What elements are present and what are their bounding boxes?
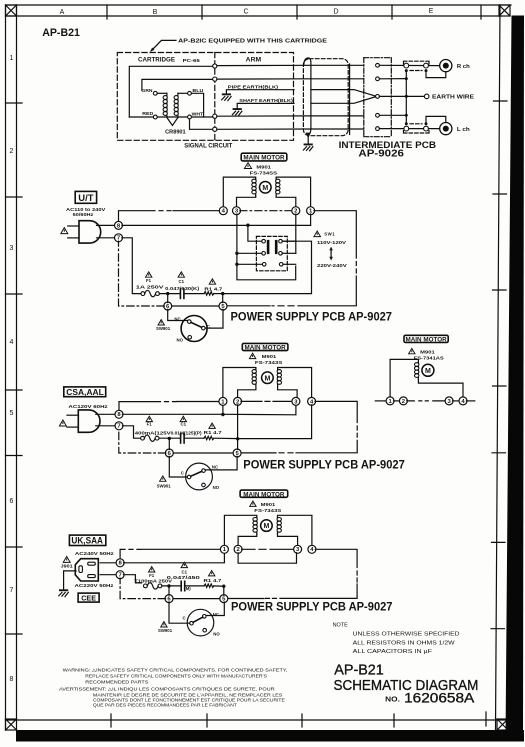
wire right winding bottom to terminal 3	[278, 534, 298, 546]
wire terminal 2 down to SW1 right pins	[295, 214, 297, 253]
wire terminal 5 to 6	[172, 598, 220, 600]
SW901 contact NO	[203, 628, 207, 632]
svg-text:C1: C1	[182, 569, 188, 574]
switch SW901 body	[181, 316, 207, 342]
label box U/T	[75, 191, 96, 203]
SW1 spare pin left	[262, 263, 266, 267]
L connector inline pins	[404, 122, 430, 133]
terminal 2	[292, 207, 300, 215]
wire winding bottom to terminal 4	[418, 379, 463, 398]
wire terminal 1 to left winding top	[223, 368, 256, 399]
descender dash break	[355, 262, 357, 274]
cartridge outer dashed box	[117, 53, 293, 141]
wire SW1 right top pin to snubber line	[225, 241, 312, 293]
wire R channel inside cable	[311, 64, 364, 66]
svg-text:NO.: NO.	[385, 694, 400, 703]
svg-text:AP-9026: AP-9026	[358, 149, 404, 160]
wire terminal 3 to 4	[453, 400, 460, 402]
bottom rail dash break	[266, 597, 277, 599]
motor left winding	[252, 179, 256, 196]
wire winding top to terminal 1	[390, 359, 418, 397]
safety triangle R1	[209, 571, 215, 576]
SW901 contact C	[187, 475, 191, 479]
svg-text:SHAFT EARTH(BLK): SHAFT EARTH(BLK)	[239, 98, 293, 103]
terminal 1	[219, 397, 227, 405]
svg-text:SW901: SW901	[158, 628, 173, 633]
svg-text:R1 4.7: R1 4.7	[204, 430, 223, 435]
corner X box top-left	[6, 5, 17, 16]
SW901 contact C	[202, 326, 206, 330]
svg-text:MAIN MOTOR: MAIN MOTOR	[245, 345, 287, 352]
safety triangle C1	[178, 272, 184, 277]
wire right bottom pin link	[282, 252, 296, 254]
terminal 1	[220, 545, 228, 553]
terminal 8	[115, 410, 123, 418]
wire terminal 2 to left winding bottom	[238, 386, 256, 398]
wire terminal 3 bus down SW1	[237, 214, 296, 280]
svg-text:0.01M(125)(P): 0.01M(125)(P)	[171, 430, 203, 435]
R plug shell return wire	[426, 71, 446, 78]
junction dot snubber node	[236, 437, 239, 440]
motor left winding	[252, 369, 256, 386]
svg-text:NOTE: NOTE	[333, 622, 349, 628]
svg-text:POWER SUPPLY PCB AP-9027: POWER SUPPLY PCB AP-9027	[243, 458, 404, 471]
right frame row ticks	[491, 101, 507, 629]
dash-dot rail terminal 6 to J901 neutral riser	[120, 578, 166, 599]
wire right winding top to terminal 1	[276, 177, 311, 207]
fuse F1	[144, 583, 162, 589]
svg-text:AC240V 50Hz: AC240V 50Hz	[75, 551, 115, 556]
wire terminal 1 to left winding top	[224, 515, 256, 546]
terminal 5	[219, 302, 227, 310]
wire plug to terminal 8	[96, 413, 116, 415]
SW901 blade C-NC	[193, 617, 203, 622]
svg-text:NC: NC	[212, 464, 218, 469]
wire rail stub left	[375, 400, 386, 402]
svg-text:MAIN MOTOR: MAIN MOTOR	[243, 491, 285, 498]
wire L channel inside cable	[311, 115, 364, 117]
wire pipe earth	[226, 90, 294, 94]
bottom rail to terminal 5	[226, 305, 270, 307]
earth lug circle	[424, 94, 429, 99]
wire terminal 8 riser to motor rail with break	[120, 549, 221, 559]
label box CSA,AAL	[64, 387, 106, 397]
svg-text:1620658A: 1620658A	[404, 691, 475, 706]
svg-text:7: 7	[10, 587, 14, 594]
terminal 8	[115, 221, 123, 229]
wire shaft earth converging	[311, 97, 375, 104]
cable right rim	[349, 64, 351, 135]
svg-text:R1 4.7: R1 4.7	[204, 578, 223, 583]
safety triangle SW1	[314, 231, 321, 237]
SW901 contact NC	[202, 469, 206, 473]
connector pin 2	[376, 77, 380, 81]
wire J901 to terminal 7	[100, 574, 117, 576]
callout leader arrow	[152, 40, 177, 50]
svg-text:M901: M901	[420, 349, 435, 354]
wire plug to terminal 7	[96, 425, 116, 427]
safety triangle SW901	[158, 320, 164, 325]
bottom frame line	[6, 719, 510, 721]
connector dash-dot box bottom edge	[364, 136, 392, 138]
terminal 7	[115, 422, 123, 430]
wire plug to terminal 8	[97, 224, 116, 226]
junction dot SW1 feed on 8-1 rail	[246, 224, 249, 227]
coil CR8901 right winding	[174, 93, 178, 117]
wire terminal 1 to 2	[394, 400, 401, 402]
switch SW901 body	[186, 463, 213, 490]
svg-text:RECOMMENDED PARTS: RECOMMENDED PARTS	[85, 679, 148, 684]
black scan bar bottom edge	[16, 730, 524, 742]
J901 slot lower	[88, 575, 96, 578]
wire fuse to C1	[159, 437, 180, 439]
fuse F1	[141, 290, 159, 296]
svg-text:C1: C1	[181, 422, 187, 427]
descender dash break	[356, 426, 358, 437]
wire shaft earth	[237, 103, 294, 108]
arm terminal 1	[213, 64, 217, 68]
connector pin 3	[376, 95, 380, 99]
terminal 6	[165, 595, 173, 603]
label box UK,SAA	[69, 535, 105, 545]
SW1 pin left top	[262, 239, 266, 243]
svg-text:PIPE EARTH(BLK): PIPE EARTH(BLK)	[228, 84, 279, 89]
safety triangle SW901	[160, 476, 166, 481]
label MAIN MOTOR boxed	[242, 343, 288, 351]
wire R1 to snubber node	[214, 293, 225, 295]
svg-text:CARTRIDGE: CARTRIDGE	[138, 57, 175, 64]
svg-text:B: B	[153, 9, 158, 16]
SW901 contact NC	[188, 320, 192, 324]
plug prong upper	[68, 225, 79, 227]
plug prong upper	[67, 414, 78, 416]
ground J901	[59, 589, 69, 596]
svg-text:MAIN MOTOR: MAIN MOTOR	[243, 155, 285, 162]
wire bus to spare left pin	[237, 263, 263, 265]
svg-text:ALL RESISTORS IN OHMS 1/2W: ALL RESISTORS IN OHMS 1/2W	[353, 640, 456, 646]
corner X box bottom-left	[6, 719, 17, 730]
svg-text:AP-B21: AP-B21	[42, 27, 80, 39]
wire junction down to terminal 6	[167, 294, 169, 303]
terminal 3	[292, 397, 300, 405]
terminal 2	[234, 397, 242, 405]
svg-text:U/T: U/T	[78, 193, 94, 203]
svg-text:AP-B2IC EQUIPPED WITH THIS CAR: AP-B2IC EQUIPPED WITH THIS CARTRIDGE	[178, 39, 328, 45]
wire terminal 5 to 6	[171, 305, 220, 307]
wire pin3 to earth lug	[379, 95, 424, 97]
wire terminal 1 to right descender	[314, 211, 356, 258]
wire junction down to terminal 5	[222, 294, 224, 303]
AC plug P901	[79, 221, 101, 243]
SW901 blade C-NC	[191, 471, 202, 476]
junction dot bus-L	[405, 122, 408, 125]
wire right top pin link	[282, 240, 296, 242]
terminal 1	[307, 207, 315, 215]
ground shaft earth	[232, 108, 242, 115]
svg-text:R1 4.7: R1 4.7	[204, 286, 223, 291]
svg-text:D: D	[333, 9, 338, 16]
svg-text:CR8901: CR8901	[165, 129, 186, 135]
wire NC to terminal 5	[206, 602, 224, 616]
svg-text:NO: NO	[177, 337, 184, 342]
wire BLU drop	[191, 93, 203, 117]
svg-text:M: M	[263, 523, 269, 530]
resistor R1	[204, 292, 214, 295]
wire junction down to terminal 5	[223, 586, 225, 595]
SW1 dashed box	[256, 236, 287, 270]
svg-text:1A 250V: 1A 250V	[136, 284, 164, 289]
bottom rail dash break	[272, 305, 294, 307]
SW1 pin left bottom	[262, 252, 266, 256]
terminal 4	[308, 545, 316, 553]
svg-text:REPLACE SAFETY CRITICAL COMPON: REPLACE SAFETY CRITICAL COMPONENTS ONLY …	[85, 674, 267, 679]
terminal RED	[153, 115, 157, 119]
svg-text:3: 3	[10, 245, 14, 252]
wire terminal 6 to NC	[168, 309, 188, 320]
junction dot bus earth	[405, 95, 408, 98]
label MAIN MOTOR boxed	[404, 335, 448, 343]
chevron pole piece of CR8901	[167, 118, 178, 126]
ground pipe earth	[222, 93, 232, 100]
capacitor C1	[181, 581, 185, 590]
wire cable drain to ground	[307, 136, 309, 144]
arm terminal 4	[213, 127, 217, 131]
wire bus to left bottom pin	[237, 252, 262, 254]
wire J901 to terminal 8	[100, 562, 117, 564]
safety triangle F1	[146, 272, 152, 277]
wire terminal 6 to C	[169, 456, 187, 477]
svg-text:L ch: L ch	[457, 127, 470, 133]
J901 slot upper	[88, 562, 96, 565]
svg-text:UNLESS OTHERWISE SPECIFIED: UNLESS OTHERWISE SPECIFIED	[353, 632, 460, 638]
resistor R1	[204, 436, 214, 439]
inner ruler line left	[16, 5, 18, 720]
wire terminal 8 live to terminal 1 drop	[124, 553, 225, 563]
descender lower part to bottom rail	[298, 276, 356, 306]
svg-text:AC120V 60Hz: AC120V 60Hz	[68, 404, 108, 409]
safety triangle at plug	[63, 556, 70, 562]
svg-text:M901: M901	[256, 165, 271, 170]
terminal 6	[164, 302, 172, 310]
J901 earth slot	[79, 566, 83, 573]
wire L return inside cable	[311, 128, 364, 130]
svg-text:C1: C1	[179, 279, 185, 284]
wire C1 to R1	[184, 437, 204, 439]
motor winding	[415, 362, 419, 379]
descender lower part to bottom rail	[280, 584, 357, 598]
terminal GRN	[153, 91, 157, 95]
safety triangle at plug	[61, 228, 68, 234]
corner X box bottom-right	[497, 719, 508, 730]
junction dot below terminal 1	[221, 413, 224, 416]
wire terminal 3 to left winding bottom	[237, 196, 256, 208]
svg-text:220V-240V: 220V-240V	[317, 263, 348, 268]
label MAIN MOTOR boxed	[240, 490, 288, 498]
corner X box top-right	[499, 5, 510, 16]
black scan bar right edge	[506, 16, 525, 742]
safety triangle R1	[209, 423, 215, 428]
cartridge/arm dashed divider	[214, 53, 216, 141]
svg-text:400mA(125V: 400mA(125V	[135, 430, 171, 435]
wire dash break terminals 2-3	[242, 548, 295, 550]
wire C to terminal 5	[205, 309, 223, 328]
terminal 4	[219, 207, 227, 215]
capacitor C1	[180, 289, 184, 298]
wire pipe earth converging	[311, 90, 375, 96]
outer border top line	[6, 4, 512, 6]
wire bottom rail RED to WHT to terminal 3	[129, 116, 212, 118]
svg-text:0.047/630(K): 0.047/630(K)	[165, 286, 200, 291]
AC plug P901	[78, 410, 100, 432]
terminal WHT	[188, 115, 192, 119]
dash-dot rail terminal 6 to plug neutral riser	[119, 429, 166, 453]
svg-text:POWER SUPPLY PCB AP-9027: POWER SUPPLY PCB AP-9027	[231, 311, 393, 324]
SW1 right jumper blade	[275, 240, 278, 254]
terminal 5	[233, 449, 241, 457]
terminal 4	[308, 397, 316, 405]
wire dash-dot between terminals 3 and 2	[240, 210, 293, 212]
wire R return inside cable	[311, 78, 364, 80]
motor M901 circle	[422, 364, 434, 376]
wire rail stub right	[466, 400, 474, 402]
motor M901 circle	[260, 182, 272, 194]
junction dot to terminal 6	[166, 292, 169, 295]
terminal 3	[445, 397, 453, 405]
junction dot to terminal 6	[167, 584, 170, 587]
bottom rail to terminal 5	[241, 452, 277, 454]
junction dot bus pin4	[405, 114, 408, 117]
svg-text:E: E	[429, 8, 434, 15]
safety triangle M901	[244, 163, 251, 169]
safety triangle SW901	[161, 622, 167, 627]
wire pin2 to bus	[379, 78, 406, 80]
svg-text:1: 1	[10, 55, 14, 62]
svg-text:110V-120V: 110V-120V	[317, 240, 347, 245]
terminal 3	[233, 207, 241, 215]
wire terminal 4 to right descender	[315, 549, 357, 567]
svg-text:EARTH WIRE: EARTH WIRE	[432, 95, 475, 101]
wire terminal 2 down through to snubber junction and terminal 5	[237, 405, 239, 450]
wire GRN to coil	[157, 92, 167, 94]
terminal 5	[220, 595, 228, 603]
label box CEE	[78, 593, 99, 602]
capacitor C1	[181, 434, 185, 443]
wire WHT to terminal 4	[190, 119, 213, 129]
arm terminal 2	[213, 77, 217, 81]
svg-text:CSA,AAL: CSA,AAL	[66, 388, 104, 397]
junction dot bus pin2	[405, 77, 408, 80]
safety triangle R1	[209, 279, 215, 284]
motor right winding	[276, 179, 280, 196]
svg-text:SIGNAL CIRCUIT: SIGNAL CIRCUIT	[184, 142, 232, 149]
wire right winding top to terminal 4	[278, 515, 312, 546]
svg-text:FS-7343S: FS-7343S	[254, 508, 281, 513]
cable left rim	[304, 58, 311, 136]
motor M901 circle	[261, 520, 273, 532]
wire right winding bottom to terminal 3	[278, 386, 298, 398]
svg-text:BLU: BLU	[192, 88, 203, 93]
descender dash break	[356, 571, 358, 582]
wire BLU to coil	[178, 92, 188, 94]
SW1 spare pin right	[279, 263, 283, 267]
cable drain arrowhead	[306, 133, 311, 138]
wire terminal 4 to right descender	[315, 401, 357, 422]
svg-text:C: C	[243, 9, 248, 16]
svg-text:NO: NO	[213, 485, 220, 490]
svg-text:ALL CAPACITORS IN µF: ALL CAPACITORS IN µF	[353, 649, 433, 655]
wire J901 earth to ground	[64, 571, 76, 589]
SW901 blade NC-C	[191, 322, 202, 327]
junction dot above terminal 5	[221, 292, 224, 295]
svg-text:UK,SAA: UK,SAA	[71, 536, 103, 546]
wire terminal 8 live rail to terminal 3 riser	[122, 405, 296, 415]
svg-text:M: M	[425, 368, 431, 375]
svg-text:RED: RED	[142, 111, 153, 116]
bottom frame column ticks	[111, 712, 486, 727]
motor M901 circle	[262, 372, 274, 384]
svg-text:NO: NO	[213, 631, 220, 636]
safety triangle M901	[409, 348, 415, 353]
shield bus vertical	[405, 71, 407, 124]
svg-text:POWER SUPPLY PCB AP-9027: POWER SUPPLY PCB AP-9027	[231, 600, 393, 613]
wire arm terminal 1 to cable	[217, 64, 311, 66]
wire terminal 4 drop to snubber junction	[239, 405, 312, 439]
connector J901 body	[75, 559, 98, 581]
svg-text:WHT: WHT	[192, 112, 204, 117]
terminal 1	[386, 397, 394, 405]
wire terminal 2 jumper to terminal 3	[238, 553, 296, 564]
wire terminal 4 to left winding top	[223, 177, 255, 207]
label MAIN MOTOR boxed	[241, 153, 287, 161]
wire terminal 5 to 6	[173, 452, 234, 454]
wire dash break between terminals 2 and 3	[241, 400, 293, 402]
svg-text:50/60Hz: 50/60Hz	[73, 212, 94, 217]
wire pin1 to R plug	[379, 64, 439, 66]
wire terminal 1 drop to 8-1 rail	[310, 214, 312, 225]
outer border left line	[5, 5, 7, 730]
svg-text:F1: F1	[149, 573, 155, 578]
wire junction down to terminal 6	[168, 438, 170, 449]
safety triangle C1	[181, 562, 187, 567]
svg-text:0.047/450: 0.047/450	[167, 575, 201, 580]
svg-text:C: C	[207, 324, 210, 329]
SW901 contact C	[190, 621, 194, 625]
wire pin4 to bus	[379, 114, 406, 116]
wire terminal 7 to fuse chain	[122, 426, 140, 438]
svg-text:2: 2	[10, 148, 14, 155]
svg-text:C: C	[183, 615, 186, 620]
safety triangle M901	[250, 501, 256, 506]
wire terminal 8 to terminal 1 lower rail	[122, 224, 311, 226]
junction dot to terminal 6	[168, 437, 171, 440]
svg-text:GRN: GRN	[142, 88, 153, 93]
wire inner loop to terminal 2	[142, 79, 213, 90]
junction dot bus-R	[405, 69, 408, 72]
wire dash break terminals 2-3	[407, 400, 447, 402]
svg-text:F1: F1	[147, 422, 153, 427]
terminal 7	[116, 571, 124, 579]
wire arm terminal 3 to cable	[217, 115, 311, 117]
wire arm terminal 2 to cable	[217, 78, 311, 80]
safety triangle C1	[180, 416, 186, 421]
svg-text:M: M	[262, 185, 268, 192]
cable sheath dashed outline	[303, 59, 348, 136]
SW901 contact NO	[188, 336, 192, 340]
svg-text:A: A	[60, 9, 65, 16]
safety triangle F1	[149, 567, 155, 572]
svg-text:SW901: SW901	[156, 326, 171, 331]
terminal BLU	[188, 91, 192, 95]
